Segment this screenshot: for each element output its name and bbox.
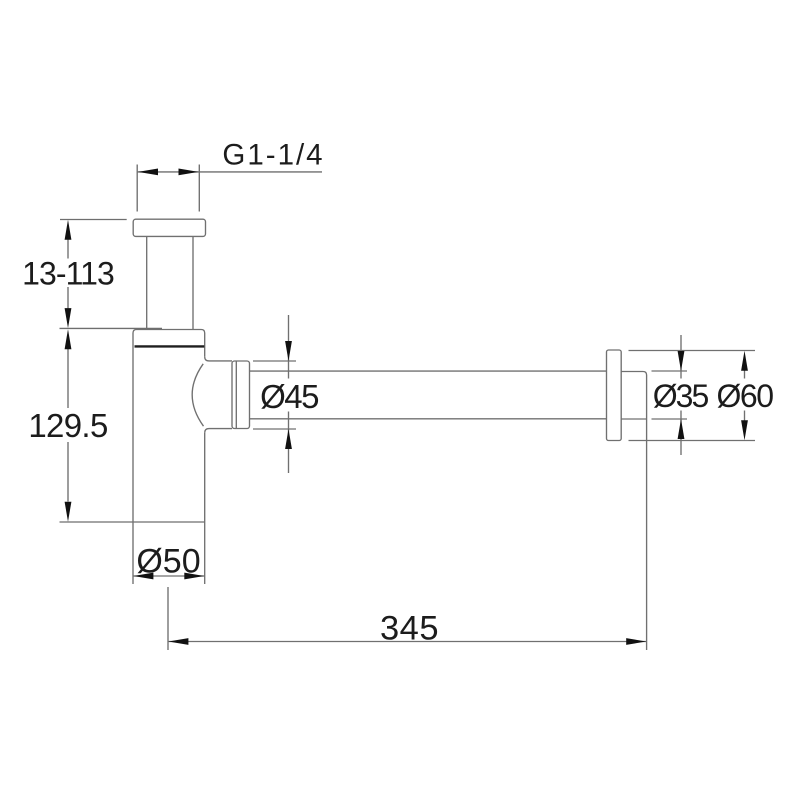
- arrow Ø45 up: [285, 429, 292, 449]
- arrow Ø60 down: [741, 420, 748, 440]
- dim Ø60 top extension: [629, 350, 756, 352]
- dim 13-113 line lower: [67, 287, 69, 308]
- dim Ø35 leader below: [680, 411, 682, 456]
- ball joint arc: [192, 364, 203, 426]
- dim Ø45 leader below: [288, 412, 290, 474]
- inlet pipe right wall: [192, 236, 194, 329]
- dim 13-113 line upper: [67, 240, 69, 259]
- arrow 129.5 down: [65, 502, 72, 522]
- wall flange: [607, 350, 622, 441]
- outlet boss top: [205, 357, 232, 361]
- arrow 129.5 up: [65, 329, 72, 349]
- dim Ø45 top extension: [253, 360, 296, 362]
- dim Ø45 leader above: [288, 315, 290, 379]
- outlet pipe bottom wall: [250, 418, 607, 420]
- dim Ø60 line lower: [744, 411, 746, 431]
- arrow Ø50 right: [184, 573, 204, 580]
- dim Ø35 bottom extension: [652, 418, 688, 420]
- wall pipe stub bottom: [621, 418, 646, 420]
- trap body bottom Ø50 extension right: [204, 522, 206, 584]
- dim Ø60 bottom extension: [629, 440, 756, 442]
- dim Ø35 top extension: [652, 370, 688, 372]
- dim Ø35 leader above: [680, 335, 682, 379]
- inlet pipe left wall: [146, 236, 148, 329]
- arrow Ø35 down: [678, 351, 685, 371]
- arrow G1-1/4 left: [138, 169, 158, 176]
- dim Ø45 bottom extension: [253, 428, 296, 430]
- trap body seam thick line: [135, 345, 205, 347]
- svg-text:345: 345: [380, 610, 439, 648]
- dim Ø50 line: [133, 575, 205, 577]
- arrow 345 left: [168, 638, 188, 645]
- dim 129.5 line upper: [67, 349, 69, 408]
- inlet flange: [133, 219, 205, 236]
- dim 13-113 bottom extension: [60, 327, 163, 329]
- arrow Ø50 left: [133, 573, 153, 580]
- wall pipe stub top: [621, 372, 646, 420]
- trap body outline: [133, 330, 205, 523]
- svg-text:13-113: 13-113: [22, 256, 114, 292]
- arrow 13-113 down: [65, 308, 72, 328]
- arrow Ø45 down: [285, 341, 292, 361]
- outlet boss bottom: [205, 429, 232, 433]
- trap body bottom Ø50 extension left: [132, 522, 134, 584]
- dim 129.5 bottom extension + body bottom edge: [60, 521, 205, 523]
- dim G1-1/4 extension right: [198, 165, 200, 212]
- arrow Ø60 up: [741, 351, 748, 371]
- svg-text:Ø45: Ø45: [260, 378, 318, 415]
- svg-text:Ø35: Ø35: [653, 378, 709, 414]
- dim G1-1/4 line + leader: [137, 171, 322, 173]
- compression nut inner edge: [235, 361, 237, 429]
- svg-text:129.5: 129.5: [28, 407, 107, 444]
- svg-text:Ø60: Ø60: [717, 378, 774, 414]
- arrow Ø35 up: [678, 419, 685, 439]
- dim 129.5 line lower: [67, 442, 69, 502]
- arrow G1-1/4 right: [179, 169, 199, 176]
- dim 345 line: [168, 641, 647, 643]
- dim 345 right extension: [646, 419, 648, 650]
- dim 13-113 top extension: [60, 219, 127, 221]
- svg-text:G1-1/4: G1-1/4: [222, 139, 324, 172]
- dim G1-1/4 extension left: [136, 165, 138, 212]
- svg-text:Ø50: Ø50: [136, 543, 200, 581]
- outlet pipe top wall: [250, 370, 607, 372]
- dim Ø60 line upper: [744, 360, 746, 379]
- compression nut: [232, 361, 250, 429]
- dim 345 left extension: [167, 587, 169, 650]
- arrow 13-113 up: [65, 220, 72, 240]
- arrow 345 right: [626, 638, 646, 645]
